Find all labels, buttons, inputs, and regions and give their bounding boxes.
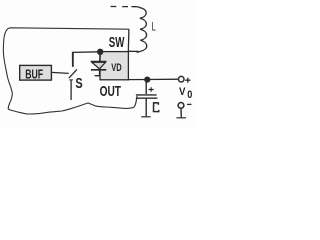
IC right edge from top corner down to OUT line [128, 29, 129, 79]
diode VD [91, 55, 106, 76]
svg-text:S: S [75, 76, 83, 92]
svg-text:OUT: OUT [100, 84, 121, 100]
wire stub left of diode at OUT level [95, 75, 101, 77]
inductor L coil [136, 7, 147, 53]
internal diode highlight box (gray) [100, 52, 128, 80]
IC block torn outline (top edge, rounded corner, wavy left and bottom edges) [3, 28, 137, 114]
capacitor C bottom plate [136, 97, 158, 99]
wire OUT line to + terminal [128, 78, 178, 80]
minus label at terminal [187, 103, 191, 105]
terminal - lead and stub bar [180, 108, 182, 117]
wire BUF to switch [51, 72, 68, 73]
BUF block [20, 65, 52, 80]
capacitor C top plate [136, 94, 157, 96]
capacitor C leads and plates [145, 80, 147, 94]
plus label at terminal [185, 78, 190, 83]
svg-text:V: V [179, 86, 186, 98]
wire SW node: corner to box [73, 52, 101, 67]
terminal + circle [178, 76, 184, 82]
terminal - circle [178, 103, 184, 109]
svg-text:BUF: BUF [25, 66, 43, 81]
capacitor bottom stub bar [141, 116, 150, 118]
wire box to coil bottom [128, 50, 138, 52]
node OUT junction dot [144, 77, 150, 83]
svg-text:VD: VD [111, 62, 121, 74]
capacitor bottom lead [145, 98, 147, 116]
dashed input wire top [111, 6, 137, 8]
capacitor plus sign [149, 87, 154, 92]
node SW junction dot [97, 49, 103, 55]
svg-text:L: L [152, 20, 156, 34]
label C [154, 103, 159, 112]
svg-text:SW: SW [109, 35, 125, 51]
switch S [69, 52, 77, 100]
svg-text:0: 0 [187, 89, 192, 101]
